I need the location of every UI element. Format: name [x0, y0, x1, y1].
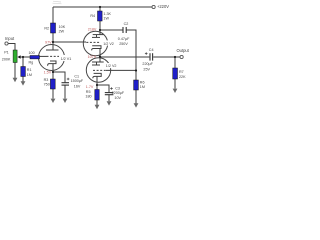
svg-text:R6: R6 — [140, 80, 145, 84]
svg-text:1M: 1M — [27, 73, 32, 77]
svg-text:1.3K: 1.3K — [103, 12, 111, 16]
svg-text:R7: R7 — [179, 70, 184, 74]
svg-text:10K: 10K — [59, 25, 66, 29]
svg-text:180: 180 — [85, 94, 91, 98]
svg-text:C1: C1 — [74, 75, 79, 79]
svg-text:R2: R2 — [44, 27, 49, 31]
svg-text:C4: C4 — [149, 48, 154, 52]
svg-text:100: 100 — [29, 51, 35, 55]
svg-text:22K: 22K — [179, 75, 186, 79]
svg-text:1.7V: 1.7V — [86, 85, 94, 89]
svg-text:1W: 1W — [103, 17, 109, 21]
svg-text:1.5V: 1.5V — [44, 70, 52, 74]
svg-text:16V: 16V — [74, 85, 81, 89]
svg-text:107V: 107V — [88, 55, 97, 59]
svg-text:220µF: 220µF — [142, 62, 153, 66]
svg-text:250V: 250V — [119, 42, 128, 46]
svg-text:1500µF: 1500µF — [71, 79, 84, 83]
svg-text:1/2 V2: 1/2 V2 — [103, 42, 114, 46]
svg-text:97V: 97V — [45, 40, 52, 44]
svg-text:1/2 V2: 1/2 V2 — [106, 64, 117, 68]
svg-text:P1: P1 — [4, 51, 9, 55]
svg-text:R1: R1 — [27, 68, 32, 72]
svg-text:C2: C2 — [124, 22, 129, 26]
svg-text:200K: 200K — [2, 58, 11, 62]
svg-text:2W: 2W — [59, 29, 65, 33]
svg-text:25V: 25V — [143, 68, 150, 72]
svg-text:218V: 218V — [88, 27, 97, 31]
svg-text:2200µF: 2200µF — [112, 91, 125, 95]
svg-text:R4: R4 — [90, 14, 95, 18]
svg-text:+220V: +220V — [157, 4, 169, 9]
svg-text:10V: 10V — [114, 96, 121, 100]
svg-text:Rg: Rg — [29, 60, 34, 64]
svg-text:750: 750 — [44, 82, 50, 86]
svg-text:0.47µF: 0.47µF — [118, 37, 130, 41]
svg-text:C3: C3 — [115, 87, 120, 91]
svg-text:Input: Input — [5, 36, 15, 41]
svg-text:1M: 1M — [140, 85, 145, 89]
svg-text:R3: R3 — [44, 78, 49, 82]
svg-text:Output: Output — [177, 48, 190, 53]
svg-text:1/2 V1: 1/2 V1 — [61, 57, 72, 61]
